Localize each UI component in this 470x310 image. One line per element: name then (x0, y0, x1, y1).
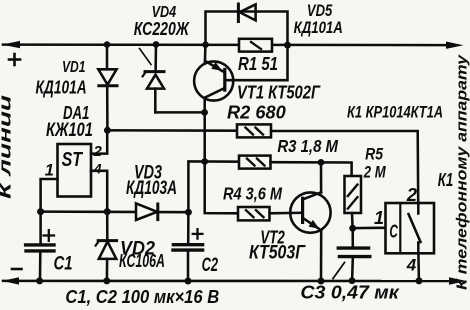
svg-text:ST: ST (62, 149, 84, 171)
svg-text:С1, С2 100 мк×16 В: С1, С2 100 мк×16 В (65, 286, 219, 307)
zener VD2 (96, 212, 117, 281)
C2 plus mark (193, 229, 203, 238)
pin 1 K1 (374, 208, 384, 228)
wire R2 right to K1 pin2 (271, 131, 418, 203)
note C3 value (300, 283, 399, 303)
node VD1-DA1pin2-R2 (104, 127, 111, 134)
label VD2 (120, 239, 155, 260)
K1 switch symbol (409, 203, 421, 253)
C1 plus mark (44, 230, 54, 241)
wire DA1 pin2 / VD1 to R2 (107, 129, 237, 132)
node VT2 emitter bottom (318, 278, 325, 285)
svg-text:VD1: VD1 (62, 59, 86, 76)
node C1 top (37, 208, 44, 215)
wire VD5 bypass loop (206, 12, 288, 46)
node top-VT1-emitter (202, 41, 209, 48)
svg-text:К1 КР1014КТ1А: К1 КР1014КТ1А (347, 104, 443, 122)
zener VD4 (143, 44, 164, 112)
label C2 (202, 254, 218, 276)
resistor R1 51 (239, 39, 272, 52)
label R2 680 (227, 101, 286, 122)
node K1 pin4 bottom (416, 277, 423, 284)
transistor VT2 KT503G (NPN) (290, 162, 330, 280)
node C1 bottom (36, 277, 43, 284)
wire K1 pin 1 (353, 227, 386, 230)
svg-text:4: 4 (406, 256, 417, 275)
wire DA1 pin 2 (91, 130, 107, 153)
svg-text:КС106А: КС106А (119, 251, 165, 271)
wire VD4 to VT1 collector (155, 111, 204, 114)
svg-text:R4 3,6 М: R4 3,6 М (223, 183, 282, 203)
label DA1 (63, 103, 89, 123)
svg-text:К линии: К линии (0, 94, 15, 199)
svg-text:КЖ101: КЖ101 (46, 120, 93, 141)
pin ST inside DA1 (62, 149, 84, 171)
VT2 emitter arrow (309, 220, 320, 229)
value KT503G (249, 242, 306, 264)
VT1 emitter arrow (211, 62, 222, 71)
svg-text:К телефонному аппарату: К телефонному аппарату (455, 54, 470, 290)
resistor R3 1.8M (239, 156, 271, 169)
wire VT1 base to R1 right node (226, 45, 288, 80)
node top-VD4 (153, 41, 160, 48)
label VT1 KT502G (237, 83, 321, 103)
wire K1 pin 4 (417, 253, 420, 280)
node top-VD1 (104, 41, 111, 48)
wire R5 bottom to node (351, 213, 354, 228)
label VT2 (260, 228, 285, 249)
wire DA1 pin 1 (41, 179, 58, 212)
wire R3 left link (188, 161, 239, 212)
label R4 3.6M (223, 183, 282, 203)
svg-text:R2 680: R2 680 (227, 101, 286, 122)
svg-text:R3 1,8 М: R3 1,8 М (277, 136, 338, 156)
node VD2 top (104, 208, 111, 215)
arrow bottom left (2, 277, 19, 284)
label VD3 (134, 163, 162, 184)
value 2M (363, 162, 387, 181)
node C3 bottom (349, 277, 356, 284)
node VD2 bottom (103, 277, 110, 284)
diode VD1 (98, 45, 117, 131)
capacitor C1 (26, 212, 54, 281)
arrow to phone, top right (446, 42, 464, 49)
node C2 top (185, 209, 192, 216)
label K1 KR1014KT1A (347, 104, 443, 122)
svg-text:КД103А: КД103А (126, 178, 177, 199)
label VD4 (152, 4, 177, 21)
svg-text:1: 1 (45, 161, 54, 179)
svg-text:КС220Ж: КС220Ж (134, 19, 190, 40)
pin 1 DA1 (45, 161, 54, 179)
value KD103A (126, 178, 177, 199)
node C2 bottom (185, 278, 192, 285)
pin C inside K1 (389, 221, 398, 242)
svg-text:R5: R5 (365, 145, 384, 164)
svg-text:С: С (389, 221, 398, 242)
wire R3 right to VT2 collector and R5 (271, 162, 352, 177)
label R1 51 (238, 54, 278, 74)
node VT2 collector junction (318, 159, 325, 166)
wire VD3 row (41, 210, 189, 213)
leader line VD4 label (140, 49, 152, 65)
label K1 (438, 170, 454, 190)
note C1 C2 values (65, 286, 219, 307)
arrow bottom right (449, 277, 467, 284)
node R5-C3-K1pin1 (349, 225, 356, 232)
diode VD5 (238, 4, 255, 22)
svg-text:1: 1 (374, 208, 384, 228)
value KC220Zh (134, 19, 190, 40)
polarity + mark (9, 54, 20, 65)
value KD101A (VD1) (36, 77, 87, 98)
node VD4-collector junction (201, 109, 208, 116)
leader line C3 label (333, 263, 345, 279)
diode VD3 (136, 203, 158, 220)
resistor R2 680 (237, 124, 271, 137)
label R5 (365, 145, 384, 164)
polarity - mark (12, 268, 22, 271)
label VD5 (307, 2, 333, 20)
svg-text:R1 51: R1 51 (238, 54, 278, 74)
wire top bus (+ line) (3, 43, 447, 46)
svg-text:2: 2 (406, 184, 418, 205)
svg-text:КД101А: КД101А (36, 77, 87, 98)
resistor R4 3.6M (238, 207, 270, 220)
value KZh101 (46, 120, 93, 141)
net K linii (left) (0, 94, 15, 199)
IC K1 KR1014KT1A box (386, 203, 435, 253)
label R3 1.8M (277, 136, 338, 156)
svg-text:С1: С1 (54, 254, 73, 275)
transistor VT1 KT502G (PNP) (194, 45, 233, 101)
wire VT1 collector down (205, 98, 238, 214)
svg-text:2 М: 2 М (363, 162, 387, 181)
pin 2 DA1 (93, 143, 103, 160)
arrow to line, top left (2, 41, 20, 48)
svg-text:С3 0,47 мк: С3 0,47 мк (300, 283, 399, 303)
capacitor C2 (173, 212, 203, 280)
resistor R5 2M (345, 176, 362, 213)
svg-text:2: 2 (93, 143, 103, 160)
svg-text:VT1 КТ502Г: VT1 КТ502Г (237, 83, 321, 103)
pin 4 K1 (406, 256, 417, 275)
svg-text:К1: К1 (438, 170, 454, 190)
pin 4 DA1 (93, 161, 102, 176)
pin 2 K1 (406, 184, 418, 205)
wire bottom bus (- line) (3, 280, 449, 283)
label C1 (54, 254, 73, 275)
svg-text:VD5: VD5 (307, 2, 333, 20)
net K telefonnomu apparatu (right) (455, 54, 470, 290)
svg-text:КД101А: КД101А (294, 19, 343, 37)
wire DA1 pin 4 (91, 171, 107, 212)
label VD1 (62, 59, 86, 76)
svg-text:КТ503Г: КТ503Г (249, 242, 306, 264)
IC DA1 KZh101 box (58, 144, 92, 197)
svg-text:4: 4 (93, 161, 102, 176)
node top-R1-right (284, 42, 291, 49)
value KD101A (VD5) (294, 19, 343, 37)
node R3-collector junction (201, 158, 208, 165)
wire R4 right to VT2 base (270, 212, 303, 215)
svg-text:С2: С2 (202, 254, 218, 276)
value KC106A (119, 251, 165, 271)
capacitor C3 (338, 228, 370, 280)
